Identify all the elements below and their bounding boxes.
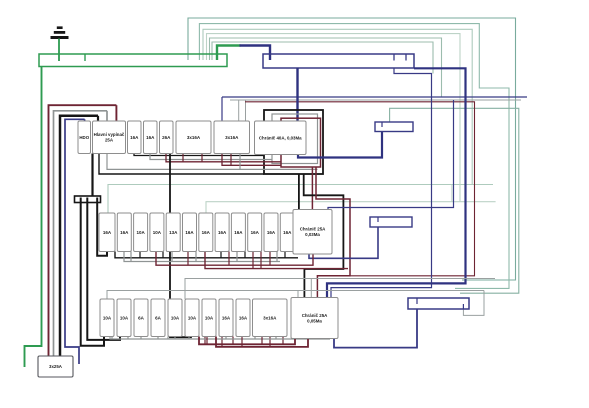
wire row2 bus black: [115, 252, 298, 258]
svg-text:3x16A: 3x16A: [187, 135, 201, 140]
wire N thick right loop to row3 RCD: [327, 68, 466, 297]
breaker row3 10A #7: [202, 299, 216, 337]
breaker row2 16A #11: [264, 213, 278, 252]
svg-text:10A: 10A: [103, 315, 112, 320]
wire row2 stub 4: [171, 252, 173, 262]
breaker row3 16A #9: [236, 299, 250, 337]
wire row3 stub 13: [204, 337, 206, 345]
wire row3 stub 12: [188, 337, 190, 340]
terminal C tick: [416, 298, 418, 304]
wire row1 bus gray: [150, 154, 272, 160]
wire N thin to row3 RCD: [331, 68, 432, 298]
wire pale long line above row2 b: [206, 202, 496, 213]
terminal strip B: [370, 217, 412, 227]
svg-text:Hlavní vypínač: Hlavní vypínač: [94, 132, 125, 137]
comb wire 3 to row2 breaker1: [97, 198, 107, 256]
wire row3 bus maroon a: [199, 337, 295, 345]
breaker row2 16A #2: [117, 213, 131, 252]
main switch Hlavni vypinac 25A: [93, 121, 126, 154]
wire navy row3 RCD to terminal C: [334, 309, 417, 348]
main fuse 3x25A: [38, 356, 73, 377]
wire row2 stub 8: [252, 252, 254, 269]
wire row3 stub 9: [261, 337, 263, 345]
svg-text:16A: 16A: [130, 135, 139, 140]
svg-text:10A: 10A: [120, 315, 129, 320]
breaker row1 16A #1: [128, 121, 142, 154]
svg-text:3x16A: 3x16A: [263, 315, 277, 320]
wire phase L3 black feed: [60, 116, 98, 356]
svg-text:26A: 26A: [162, 135, 171, 140]
wire row3 bus gray: [110, 337, 330, 340]
wire gray zigzag to terminal C: [463, 291, 484, 316]
RCD2 Chranic 25A: [293, 210, 332, 255]
wire row3 stub 18: [282, 337, 284, 345]
wire PE green down left side: [25, 67, 42, 368]
svg-text:10A: 10A: [205, 315, 214, 320]
wire row2 stub 9: [269, 252, 271, 266]
wire PE pale green third loop: [203, 29, 472, 184]
busbar N navy: [263, 54, 414, 68]
breaker row1 16A #2: [144, 121, 158, 154]
breaker row2 16A #10: [248, 213, 262, 252]
wire row3 stub 2b: [127, 337, 129, 340]
breaker HDO: [78, 121, 91, 154]
breaker row1 3x16A #1: [176, 121, 211, 154]
wire row1 bus maroon b: [222, 154, 281, 166]
wire neutral navy feed: [65, 119, 85, 364]
wire maroon loop around RCD1: [281, 118, 321, 167]
wire main switch to comb: [91, 154, 93, 197]
wire phase L2 gray feed: [54, 111, 108, 356]
wire row2 stub 12: [195, 252, 197, 262]
svg-text:10A: 10A: [153, 230, 162, 235]
wire row3 stub 17: [269, 337, 271, 347]
svg-text:6A: 6A: [155, 315, 162, 320]
wire PE pale teal second loop: [199, 24, 509, 289]
svg-text:16A: 16A: [222, 315, 231, 320]
terminal strip C: [408, 298, 469, 309]
wire row2 stub 5: [187, 252, 189, 266]
wire row3 stub 16: [254, 337, 256, 340]
breaker row2 16A #12: [280, 213, 294, 252]
svg-text:HDO: HDO: [79, 135, 89, 140]
wire row3 stub 4: [157, 337, 159, 340]
wire row2 stub 3: [139, 252, 141, 258]
wire PE pale green fifth loop: [210, 38, 442, 97]
comb wire 1 to row3 breaker1: [81, 198, 104, 346]
svg-text:10A: 10A: [188, 315, 197, 320]
comb wire 2 to row3 breaker2: [87, 198, 120, 340]
breaker row3 3x16A: [253, 299, 288, 337]
wire gray line above row3 a: [185, 279, 495, 300]
svg-text:Chránič 40A, 0,03Ma: Chránič 40A, 0,03Ma: [259, 135, 302, 140]
wire row2 stub 14: [244, 252, 246, 258]
wire teal loop from terminal A: [390, 108, 519, 293]
svg-text:16A: 16A: [239, 315, 248, 320]
svg-text:16A: 16A: [283, 230, 292, 235]
wire black loop around RCD1: [264, 110, 323, 174]
svg-text:13A: 13A: [169, 230, 178, 235]
breaker row2 16A #8: [215, 213, 229, 252]
wire phase L1 maroon feed: [49, 105, 117, 356]
wire navy stub to breaker top: [221, 97, 223, 121]
wire junction pale pair connector: [451, 185, 453, 202]
breaker row1 26A #3: [160, 121, 174, 154]
wire row3 stub 15: [232, 337, 234, 345]
wire row2 bus maroon a: [156, 252, 313, 266]
breaker row3 16A #8: [219, 299, 233, 337]
N busbar tick 2: [405, 54, 407, 61]
wire PE pale teal outer loop: [188, 18, 516, 280]
wire gray loop around RCD1: [272, 114, 318, 164]
wire navy long horizontal: [222, 96, 527, 98]
svg-text:3x16A: 3x16A: [225, 135, 239, 140]
breaker row3 6A #3: [134, 299, 148, 337]
busbar PE green: [39, 54, 227, 67]
wire row1 stub 16A-2: [201, 154, 203, 162]
wire gray stub RCD3 top b: [297, 291, 299, 298]
wire 26A breaker long black to row3: [170, 154, 191, 338]
breaker row2 16A #9: [231, 213, 245, 252]
breaker row3 10A #1: [100, 299, 114, 337]
wire pale long line above row2: [108, 185, 493, 214]
wire row1 bus gray b: [107, 154, 318, 170]
breaker row2 10A #4: [150, 213, 164, 252]
breaker row2 16A #6: [183, 213, 197, 252]
wire gray line above row3 b: [107, 291, 484, 300]
wire black feed RCD2: [298, 174, 300, 214]
wire row2 stub 10: [284, 252, 286, 258]
ground electrode symbol: [51, 26, 69, 39]
svg-text:0,05Ma: 0,05Ma: [307, 318, 322, 323]
wire N stub to HDO: [84, 119, 86, 121]
wire gray stub 2: [245, 100, 247, 121]
svg-text:16A: 16A: [251, 230, 260, 235]
wire row3 stub 10: [275, 337, 277, 340]
wire maroon Z to row3 RCD: [316, 167, 350, 299]
wire row2 bus maroon b: [205, 252, 348, 269]
breaker row3 10A #2: [117, 299, 131, 337]
wire maroon feed RCD2: [311, 167, 313, 214]
svg-text:16A: 16A: [234, 230, 243, 235]
wire row3 stub 11: [167, 337, 169, 340]
wire row3 stub 5: [174, 337, 176, 340]
svg-text:3x25A: 3x25A: [49, 364, 63, 369]
wire PE link green thick: [217, 46, 241, 61]
wire row2 stub 15: [260, 252, 262, 269]
wire row3 stub 14: [221, 337, 223, 347]
wire row3 stub 8: [241, 337, 243, 347]
N busbar tick 1: [393, 54, 395, 61]
breaker row2 10A #3: [134, 213, 148, 252]
wire row2 stub 13: [228, 252, 230, 266]
svg-text:16A: 16A: [218, 230, 227, 235]
svg-text:16A: 16A: [185, 230, 194, 235]
wire gray stub RCD3 top: [310, 279, 312, 298]
wire navy terminal B to RCD2: [309, 227, 378, 258]
RCD3 Chranic 25A row3: [291, 298, 338, 339]
svg-text:25A: 25A: [105, 138, 114, 143]
wire row1 bus black: [134, 154, 264, 156]
wire row1 bus maroon a: [166, 154, 281, 162]
wire PE pale green sixth loop: [212, 42, 433, 74]
svg-text:16A: 16A: [267, 230, 276, 235]
breaker row2 13A #5: [166, 213, 180, 252]
wire row1 stub maroon: [182, 154, 184, 162]
PE busbar tick 1: [84, 54, 86, 61]
svg-text:Chránič 25A: Chránič 25A: [302, 313, 328, 318]
wire row3 stub 1b: [111, 337, 113, 340]
wire PE pale green fourth loop: [207, 34, 461, 202]
wire navy RCD1 to terminal A: [298, 132, 382, 158]
terminal C tick 2: [462, 304, 464, 309]
breaker row2 16A #1: [99, 213, 115, 252]
wire row2 stub 16: [276, 252, 278, 262]
svg-text:16A: 16A: [103, 230, 112, 235]
svg-text:16A: 16A: [146, 135, 155, 140]
svg-text:0,03Ma: 0,03Ma: [305, 232, 320, 237]
wire L1 stub to main switch: [115, 105, 117, 121]
wire row1 stub gray c: [239, 154, 241, 170]
wire gray long horizontal: [230, 99, 521, 101]
svg-text:Chránič 25A: Chránič 25A: [300, 227, 326, 232]
svg-text:6A: 6A: [138, 315, 145, 320]
wire row3 bus maroon b: [216, 337, 308, 347]
wire L2 stub to main switch: [106, 111, 108, 121]
wire row2 stub 11: [162, 252, 164, 258]
wire N link navy thick: [240, 46, 271, 61]
svg-text:10A: 10A: [136, 230, 145, 235]
wire row2 stub 2: [130, 252, 132, 262]
breaker row3 10A #5: [168, 299, 182, 337]
breaker row1 3x16A #2: [214, 121, 250, 154]
svg-text:16A: 16A: [202, 230, 211, 235]
breaker row3 10A #6: [185, 299, 199, 337]
wire maroon long horizontal to row3: [245, 102, 475, 276]
wire gray stub 1: [238, 100, 240, 121]
wire row3 stub 7: [225, 337, 227, 340]
wire row2 stub 6: [220, 252, 222, 258]
terminal strip A: [375, 122, 413, 132]
wire row2 stub 7: [236, 252, 238, 262]
wire ground stem: [58, 39, 60, 62]
RCD1 Chranic 40A: [255, 121, 307, 155]
wire L3 stub to main switch: [97, 116, 99, 121]
wire row2 bus gray: [124, 252, 280, 262]
wire black Z to row3 RCD: [304, 174, 344, 299]
wire navy RCD2 top right: [328, 100, 454, 214]
terminal A tick: [381, 122, 383, 127]
wire row3 stub 3: [140, 337, 142, 340]
comb terminal block: [75, 196, 101, 203]
breaker row3 6A #4: [151, 299, 165, 337]
wire row3 stub 6: [206, 337, 208, 345]
svg-text:16A: 16A: [120, 230, 129, 235]
wire N to RCD1 top: [296, 68, 298, 121]
wire row1 stub 3x16A-2: [230, 154, 232, 166]
terminal B tick: [377, 217, 379, 222]
svg-text:10A: 10A: [171, 315, 180, 320]
breaker row2 16A #7: [199, 213, 213, 252]
wire row1 bus black b: [99, 154, 264, 175]
